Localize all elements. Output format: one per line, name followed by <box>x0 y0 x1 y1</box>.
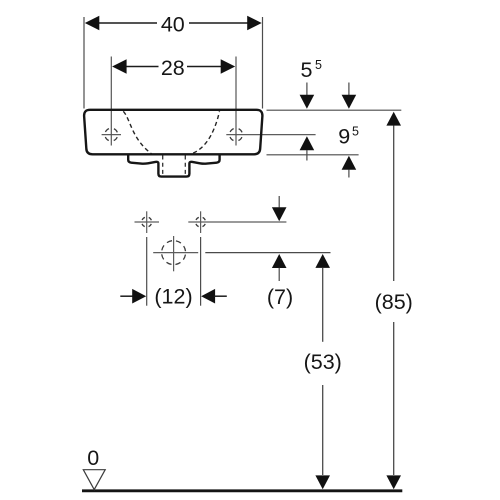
svg-text:28: 28 <box>161 56 185 80</box>
svg-text:(12): (12) <box>154 285 192 309</box>
drain outlet crosshair <box>153 252 198 254</box>
fixing hole left circle <box>142 217 152 227</box>
svg-text:(53): (53) <box>304 350 342 374</box>
tap hole left circle <box>105 128 118 141</box>
extension line 40 right <box>262 17 264 109</box>
dimension 53 line <box>315 254 330 268</box>
rim top reference line <box>267 109 402 111</box>
apron and trap box outline <box>128 154 219 177</box>
extension line 12 right <box>200 237 202 306</box>
fixing hole right crosshair and reference line <box>188 221 286 223</box>
extension line 28 right through tap hole <box>235 57 237 146</box>
trap hidden edge left <box>162 156 164 176</box>
dimension 40 arrow right <box>247 16 262 31</box>
drain outlet dashed circle <box>162 241 186 265</box>
tap hole right circle <box>230 128 243 141</box>
svg-text:40: 40 <box>161 13 185 37</box>
bowl inner dashed outline <box>123 111 219 154</box>
dimension 40 arrow left <box>85 16 100 31</box>
dimension 5.5 lower arrow <box>300 136 315 150</box>
basin body outline <box>84 110 262 155</box>
datum triangle <box>83 470 105 490</box>
dimension 9.5 lower arrow <box>342 156 357 170</box>
extension line 40 left <box>83 17 85 109</box>
dimension 9.5 upper arrow <box>348 83 350 96</box>
svg-text:0: 0 <box>87 446 99 470</box>
dimension 28 arrow right <box>221 59 236 74</box>
svg-text:(85): (85) <box>375 290 413 314</box>
trap hidden edge right <box>184 156 186 176</box>
extension line 12 left <box>146 237 148 306</box>
dimension 28 line <box>126 66 159 68</box>
tap hole left crosshair <box>102 134 121 136</box>
fixing hole right circle <box>196 217 206 227</box>
ground line <box>82 489 402 492</box>
dimension 28 arrow left <box>112 59 127 74</box>
dimension 5.5 upper arrow <box>306 83 308 96</box>
dimension 12 left arrow <box>120 295 133 297</box>
dimension 40 line <box>99 22 158 24</box>
dimension 85 line <box>386 112 401 126</box>
dimension 7 upper arrow <box>278 196 280 207</box>
extension line 28 left through tap hole <box>110 57 112 146</box>
dimension 12 right arrow <box>201 289 215 304</box>
tap hole right center line extended right <box>226 134 315 136</box>
fixing hole left crosshair <box>135 221 160 223</box>
dimension 7 lower arrow <box>272 254 287 268</box>
basin bottom reference line <box>267 154 359 156</box>
svg-text:(7): (7) <box>267 285 293 309</box>
drain center reference line <box>205 252 330 254</box>
